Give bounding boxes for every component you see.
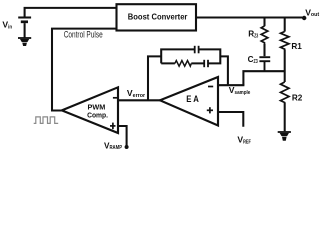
svg-text:Boost Converter: Boost Converter [128, 13, 188, 22]
svg-text:Comp.: Comp. [87, 111, 108, 120]
resistor R1 [281, 32, 289, 51]
svg-text:R2: R2 [292, 94, 303, 103]
wire compensation network right leg [220, 56, 228, 85]
waveform control pulse (square wave) [34, 117, 59, 124]
wire R1 bottom to Vsample junction [284, 50, 286, 82]
wire R1 branch top lead [284, 18, 286, 32]
wire Vsample net (junction to divider) [243, 71, 284, 85]
wire Vout output net [196, 16, 304, 18]
wire R2 bottom lead [284, 103, 286, 131]
wire EA inverting input to Vsample [217, 84, 244, 86]
svg-text:E A: E A [186, 94, 199, 104]
resistor R3 (compensation bottom branch) [175, 61, 191, 67]
wire RZ3 branch top lead [263, 18, 265, 27]
capacitor C1 (compensation top branch) [195, 46, 199, 54]
wire Vin to Boost Converter input [25, 8, 117, 17]
battery V1 (Vin source) [18, 18, 31, 38]
wire Verror net (EA output to PWM inverting input) [119, 99, 162, 101]
resistor RZ3 [261, 26, 268, 44]
ground (below R2) [278, 131, 291, 141]
resistor R2 [281, 82, 290, 103]
wire EA non-inverting input to VREF [217, 112, 243, 127]
block Boost Converter [117, 4, 197, 30]
wire PWM non-inverting input to VRAMP terminal [117, 126, 127, 146]
wire compensation network loop [161, 49, 220, 63]
ground (battery negative) [18, 37, 31, 46]
svg-text:Control Pulse: Control Pulse [64, 30, 103, 40]
comparator PWM [62, 87, 118, 133]
capacitor CZ3 [259, 57, 270, 71]
node Vout [302, 16, 306, 20]
wire RZ3 to CZ3 [263, 44, 265, 56]
node VRAMP terminal [125, 145, 129, 149]
op-amp EA (error amplifier) [160, 77, 218, 126]
wire compensation network left leg [148, 56, 161, 100]
wire control pulse (PWM output to Boost Converter) [52, 29, 117, 111]
capacitor C2 (compensation bottom branch) [204, 60, 208, 67]
svg-text:R1: R1 [291, 42, 302, 51]
